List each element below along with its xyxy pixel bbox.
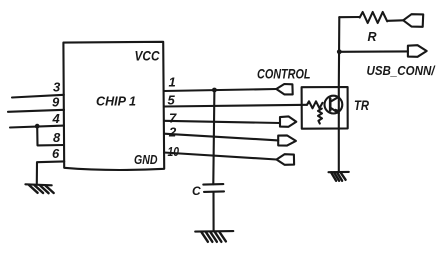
svg-text:10: 10 xyxy=(168,144,180,159)
wire USB_CONN xyxy=(339,50,408,52)
pin 7 label xyxy=(169,111,177,126)
pin 6 label xyxy=(52,146,60,161)
svg-text:VCC: VCC xyxy=(135,49,160,64)
svg-text:8: 8 xyxy=(53,130,61,145)
wire pin 6 xyxy=(37,161,64,183)
wire pin 9 xyxy=(8,110,64,112)
resistor R value label xyxy=(368,30,377,44)
pin 3 label xyxy=(53,80,61,95)
svg-text:2: 2 xyxy=(168,125,177,140)
svg-text:7: 7 xyxy=(169,111,177,126)
junction node pin1 / capacitor C xyxy=(212,88,217,93)
chip U1 GND pin label xyxy=(134,152,158,167)
wire capacitor C bottom to ground xyxy=(212,192,214,231)
connector flag pin 7 (points right) xyxy=(280,116,296,126)
pin 4 label xyxy=(52,111,61,126)
svg-text:CONTROL: CONTROL xyxy=(257,66,311,82)
wire resistor R left xyxy=(339,16,359,18)
connector flag R (points left) xyxy=(403,14,423,27)
transistor TR base resistor (zigzag inside box) xyxy=(307,101,323,108)
svg-text:C: C xyxy=(192,184,201,198)
capacitor C xyxy=(203,184,224,192)
connector flag pin 10 (points left) xyxy=(277,154,295,165)
wire pin 7 xyxy=(164,121,280,123)
wire pin 5 to transistor box xyxy=(164,105,307,107)
net label CONTROL xyxy=(257,66,311,82)
pin 9 label xyxy=(52,95,60,110)
svg-text:5: 5 xyxy=(168,93,176,108)
chip U1 (CHIP 1) body xyxy=(63,42,164,170)
connector flag pin 2 (points right) xyxy=(278,135,296,145)
resistor R xyxy=(360,12,388,23)
svg-text:USB_CONN/: USB_CONN/ xyxy=(367,63,436,78)
svg-text:4: 4 xyxy=(52,111,61,126)
wire capacitor C top (from pin1 junction down) xyxy=(213,90,214,184)
wire pin 8 xyxy=(37,126,64,145)
chip U1 name label CHIP 1 xyxy=(96,94,136,109)
pin 5 label xyxy=(168,93,176,108)
svg-text:1: 1 xyxy=(169,75,176,90)
ground GND1 (left, below pin 6) xyxy=(25,184,53,193)
svg-text:TR: TR xyxy=(354,97,370,113)
wire TR collector through box to ground xyxy=(338,87,340,172)
wire main vertical net (R / USB_CONN / TR collector) xyxy=(338,17,341,87)
transistor TR symbol xyxy=(325,96,343,114)
junction node pin4/pin8 xyxy=(35,124,40,129)
transistor TR emitter resistor (vertical zigzag inside box) xyxy=(318,109,322,124)
junction node USB_CONN xyxy=(337,49,342,54)
connector flag USB_CONN (points right) xyxy=(408,45,427,57)
pin 10 label xyxy=(168,144,180,159)
wire resistor R right to connector xyxy=(388,19,403,22)
net label USB_CONN/ xyxy=(367,63,436,78)
pin 8 label xyxy=(53,130,61,145)
pin 1 label xyxy=(169,75,176,90)
ground GND2 (below capacitor C) xyxy=(195,231,233,242)
wire pin 2 xyxy=(164,134,278,141)
svg-text:9: 9 xyxy=(52,95,60,110)
svg-text:R: R xyxy=(368,30,377,44)
wire pin 10 xyxy=(164,153,277,160)
wire pin 4 xyxy=(10,126,64,128)
pin 2 label xyxy=(168,125,177,140)
capacitor C value label xyxy=(192,184,201,198)
transistor TR box xyxy=(302,87,348,129)
connector flag CONTROL (points left) xyxy=(276,84,292,94)
wire pin 1 to CONTROL connector xyxy=(164,89,276,91)
svg-text:3: 3 xyxy=(53,80,61,95)
transistor TR reference label xyxy=(354,97,370,113)
ground GND3 (below transistor TR) xyxy=(329,172,349,181)
wire pin 3 xyxy=(12,95,64,98)
svg-text:6: 6 xyxy=(52,146,60,161)
chip U1 VCC pin label xyxy=(135,49,160,64)
svg-text:GND: GND xyxy=(134,152,158,167)
svg-text:CHIP 1: CHIP 1 xyxy=(96,94,136,109)
